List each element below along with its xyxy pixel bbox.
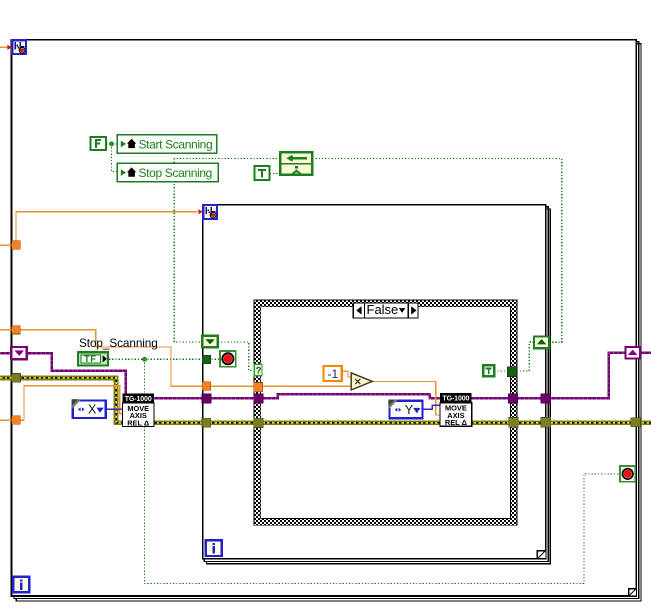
shift register purple left xyxy=(11,347,27,359)
svg-text:TG-1000: TG-1000 xyxy=(442,396,469,403)
svg-text:False: False xyxy=(367,302,399,317)
tunnel olive inner-right xyxy=(541,418,551,428)
wire: orange to TG-1000 X input xyxy=(0,386,123,420)
svg-text:Stop_Scanning: Stop_Scanning xyxy=(79,336,158,350)
svg-text:Stop Scanning: Stop Scanning xyxy=(139,166,213,180)
wire: orange multiply output to TG-1000 Y xyxy=(372,381,440,415)
tunnel olive outer-left xyxy=(12,374,21,383)
boolean control terminal TF xyxy=(78,352,108,365)
tunnel olive outer-right xyxy=(631,418,641,427)
numeric constant -1 xyxy=(324,366,342,381)
wire: olive error cluster wire xyxy=(0,378,651,423)
tunnel purple case-right xyxy=(508,394,517,403)
tunnel green case-right xyxy=(507,367,516,377)
tunnel purple inner-left xyxy=(202,394,211,403)
case selector label "False" xyxy=(353,302,418,318)
stop button terminal (inner) xyxy=(220,351,236,367)
tunnel green inner-left xyxy=(202,355,211,364)
tunnel orange inner-left xyxy=(202,382,211,391)
boolean constant T (case) xyxy=(483,365,494,376)
shift register purple right xyxy=(626,347,640,359)
svg-text:-1: -1 xyxy=(328,367,339,381)
ring constant X xyxy=(72,399,106,418)
svg-text:X: X xyxy=(88,403,97,417)
wire: dotted green case T to right shift register xyxy=(494,342,534,371)
boolean constant F xyxy=(91,137,106,150)
tunnel olive inner-left xyxy=(202,418,211,427)
case selector tunnel ? xyxy=(254,364,262,376)
svg-text:REL Δ: REL Δ xyxy=(127,418,150,427)
local variable Start Scanning xyxy=(117,135,216,153)
wait icon on inner loop corner xyxy=(198,204,218,220)
svg-text:Start Scanning: Start Scanning xyxy=(139,137,213,151)
TG-1000 node Y xyxy=(440,393,472,427)
wire: orange to multiply input xyxy=(0,330,351,387)
wire: purple right stub to edge xyxy=(640,351,651,354)
inner loop fold corner xyxy=(537,551,545,559)
svg-text:×: × xyxy=(354,375,361,389)
wire: orange into inner loop wait icon xyxy=(0,212,198,246)
wire: dotted green F-to-locals xyxy=(106,144,117,172)
tunnel olive case-left xyxy=(254,418,264,427)
wire: orange into top wait icon xyxy=(0,46,8,48)
wire: dotted green shift register to case selector xyxy=(218,342,254,371)
shift register green left xyxy=(202,336,218,347)
case structure (checkered border) xyxy=(254,300,517,525)
wire: blue Y ring to node xyxy=(423,405,440,409)
TG-1000 node X xyxy=(122,394,154,428)
wire: purple from left shift register to TG-1000 X xyxy=(27,353,126,393)
wire: dotted green feedback left to green shift register xyxy=(174,159,280,342)
iteration terminal i (inner) xyxy=(206,540,222,556)
wire: dotted green T to feedback node xyxy=(270,173,280,175)
inner while loop border xyxy=(203,205,551,564)
svg-text:REL Δ: REL Δ xyxy=(445,418,468,427)
tunnel orange outer-left mid xyxy=(12,326,20,334)
tunnel orange outer-left lower xyxy=(12,416,20,424)
junction dot near F constant xyxy=(110,142,114,146)
wire: orange -1 to multiply xyxy=(342,371,351,377)
svg-text:?: ? xyxy=(256,366,262,377)
wire: blue X ring to node xyxy=(106,408,123,410)
tunnel purple case-left xyxy=(254,394,263,403)
wire: dotted green TF to inner tunnel and stop button xyxy=(109,358,220,360)
ring constant Y xyxy=(388,400,422,419)
wait icon on outer loop corner xyxy=(7,39,27,55)
outer loop fold corner xyxy=(628,588,636,596)
multiply node xyxy=(351,373,372,390)
wire: purple main run to right shift register xyxy=(154,353,626,399)
iteration terminal i (outer) xyxy=(13,577,29,593)
svg-text:TG-1000: TG-1000 xyxy=(125,396,152,403)
stop button terminal (outer right) xyxy=(620,466,635,482)
feedback node xyxy=(280,152,312,174)
tunnel olive case-right xyxy=(509,418,519,428)
svg-text:Y: Y xyxy=(405,403,414,417)
junction dot on TF wire xyxy=(143,357,147,361)
wire: dotted green feedback right down to right green shift register xyxy=(312,159,561,343)
boolean constant T xyxy=(255,166,270,180)
shift register green right xyxy=(534,337,549,349)
svg-text:TF: TF xyxy=(84,354,97,365)
wire: dotted green long bottom run to right stop terminal xyxy=(145,359,620,583)
tunnel orange outer-left upper xyxy=(12,241,20,249)
wire: purple cluster wire left stub xyxy=(0,352,12,355)
local variable Stop Scanning xyxy=(117,163,218,182)
tunnel purple inner-right xyxy=(541,394,551,404)
tunnel orange case-left xyxy=(254,383,263,392)
